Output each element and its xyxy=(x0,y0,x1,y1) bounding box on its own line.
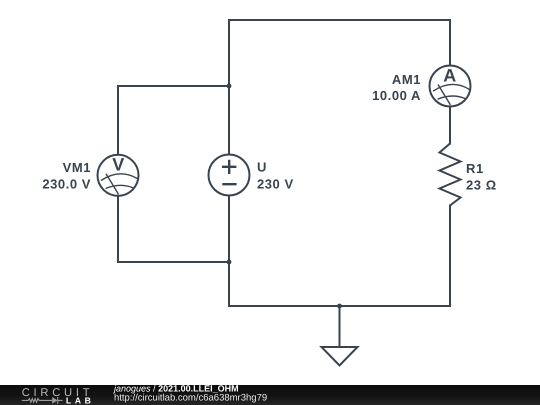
svg-text:230 V: 230 V xyxy=(257,176,294,191)
svg-text:R1: R1 xyxy=(466,161,484,176)
wire top loop from U top to AM1 top xyxy=(229,20,450,154)
wire VM1 top branch xyxy=(118,86,229,154)
svg-text:U: U xyxy=(257,160,267,175)
svg-text:10.00 A: 10.00 A xyxy=(372,88,421,103)
svg-text:VM1: VM1 xyxy=(63,160,91,175)
wire AM1 to R1 xyxy=(449,108,451,144)
resistor R1 xyxy=(440,144,461,206)
wire bottom rail xyxy=(229,305,450,307)
footer bar xyxy=(0,385,540,405)
wire ground stub xyxy=(339,306,341,347)
svg-text:AM1: AM1 xyxy=(392,72,421,87)
wire junction to bottom rail xyxy=(228,262,230,306)
svg-text:http://circuitlab.com/c6a638mr: http://circuitlab.com/c6a638mr3hg79 xyxy=(114,393,267,404)
node junction bottom-left (229,262) xyxy=(227,260,232,265)
wire R1 bottom xyxy=(449,206,451,307)
label AM1 value xyxy=(372,72,421,103)
svg-text:23 Ω: 23 Ω xyxy=(466,177,497,192)
logo resistor-diode squiggle xyxy=(22,397,63,404)
voltmeter VM1 xyxy=(98,155,139,196)
ammeter AM1 xyxy=(430,65,471,106)
ground xyxy=(322,347,358,366)
node junction top (229,86) xyxy=(227,84,232,89)
wire U bottom segment xyxy=(228,197,230,263)
svg-text:LAB: LAB xyxy=(66,396,95,405)
logo diode triangle xyxy=(52,397,57,404)
node junction ground (339.5,306) xyxy=(337,304,342,309)
wire VM1 bottom branch xyxy=(118,197,229,262)
label U value xyxy=(257,160,294,192)
svg-text:230.0 V: 230.0 V xyxy=(42,176,91,191)
label VM1 value xyxy=(42,160,91,191)
voltage source U xyxy=(209,155,250,196)
label R1 value xyxy=(466,161,497,193)
svg-text:A: A xyxy=(443,65,456,85)
svg-text:V: V xyxy=(112,155,124,175)
